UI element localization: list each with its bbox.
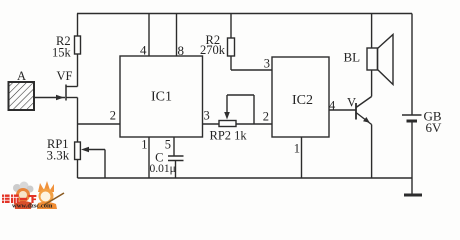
svg-text:3: 3 <box>264 57 270 71</box>
svg-text:2: 2 <box>110 109 116 123</box>
sensor plate A <box>9 69 35 110</box>
IC2 pin 1 wire <box>294 137 302 178</box>
svg-text:270k: 270k <box>200 43 226 57</box>
transistor VF (FET) <box>57 69 78 101</box>
wire VF source down to RP1 <box>77 98 79 143</box>
watermark mascot 1 <box>13 182 34 210</box>
svg-text:15k: 15k <box>52 46 72 60</box>
watermark text weiku (stylized CJK blocks) <box>2 195 36 204</box>
resistor R2 15k <box>52 14 81 87</box>
svg-text:RP2 1k: RP2 1k <box>210 129 248 143</box>
svg-text:4: 4 <box>140 43 147 58</box>
battery GB 6V <box>402 14 442 196</box>
svg-text:5: 5 <box>165 138 171 152</box>
op-amp IC1 <box>120 56 203 137</box>
svg-text:6V: 6V <box>426 120 443 135</box>
IC1 pin 8 wire <box>177 14 185 59</box>
speaker BL <box>344 14 394 85</box>
IC1 pin 1 wire <box>141 137 149 178</box>
svg-text:2: 2 <box>263 110 269 124</box>
svg-text:A: A <box>17 69 26 83</box>
svg-text:3.3k: 3.3k <box>47 148 70 163</box>
wire node to IC1 pin 2 <box>78 123 121 125</box>
ground <box>404 194 422 197</box>
resistor R2 270k <box>200 14 235 71</box>
svg-text:IC2: IC2 <box>292 93 313 108</box>
transistor V (NPN) <box>347 70 372 178</box>
svg-text:IC1: IC1 <box>151 90 172 105</box>
capacitor C 0.01u <box>150 151 184 179</box>
potentiometer RP1 3.3k <box>47 137 106 178</box>
svg-text:8: 8 <box>178 43 185 58</box>
IC2 pin 4 wire to transistor base <box>329 99 356 113</box>
svg-text:BL: BL <box>344 50 361 65</box>
IC1 pin 3 wire <box>203 109 220 125</box>
svg-text:3: 3 <box>204 109 210 123</box>
svg-text:VF: VF <box>57 69 73 83</box>
wire bottom rail <box>78 177 413 179</box>
svg-text:www.dzsc.com: www.dzsc.com <box>12 203 53 210</box>
IC2 pin 3 wire <box>231 57 272 71</box>
svg-text:V: V <box>347 96 356 110</box>
IC1 pin 5 wire <box>165 137 174 156</box>
svg-text:1: 1 <box>141 138 147 152</box>
svg-text:1: 1 <box>294 142 300 156</box>
wire top supply rail <box>77 13 412 15</box>
IC1 pin 4 wire <box>140 14 149 58</box>
wire A to VF gate (with arrow) <box>34 95 65 101</box>
potentiometer RP2 1k <box>210 95 273 143</box>
watermark mascot 2 <box>37 181 64 209</box>
op-amp IC2 <box>272 57 329 137</box>
svg-text:4: 4 <box>329 99 336 113</box>
svg-text:0.01μ: 0.01μ <box>150 163 176 175</box>
